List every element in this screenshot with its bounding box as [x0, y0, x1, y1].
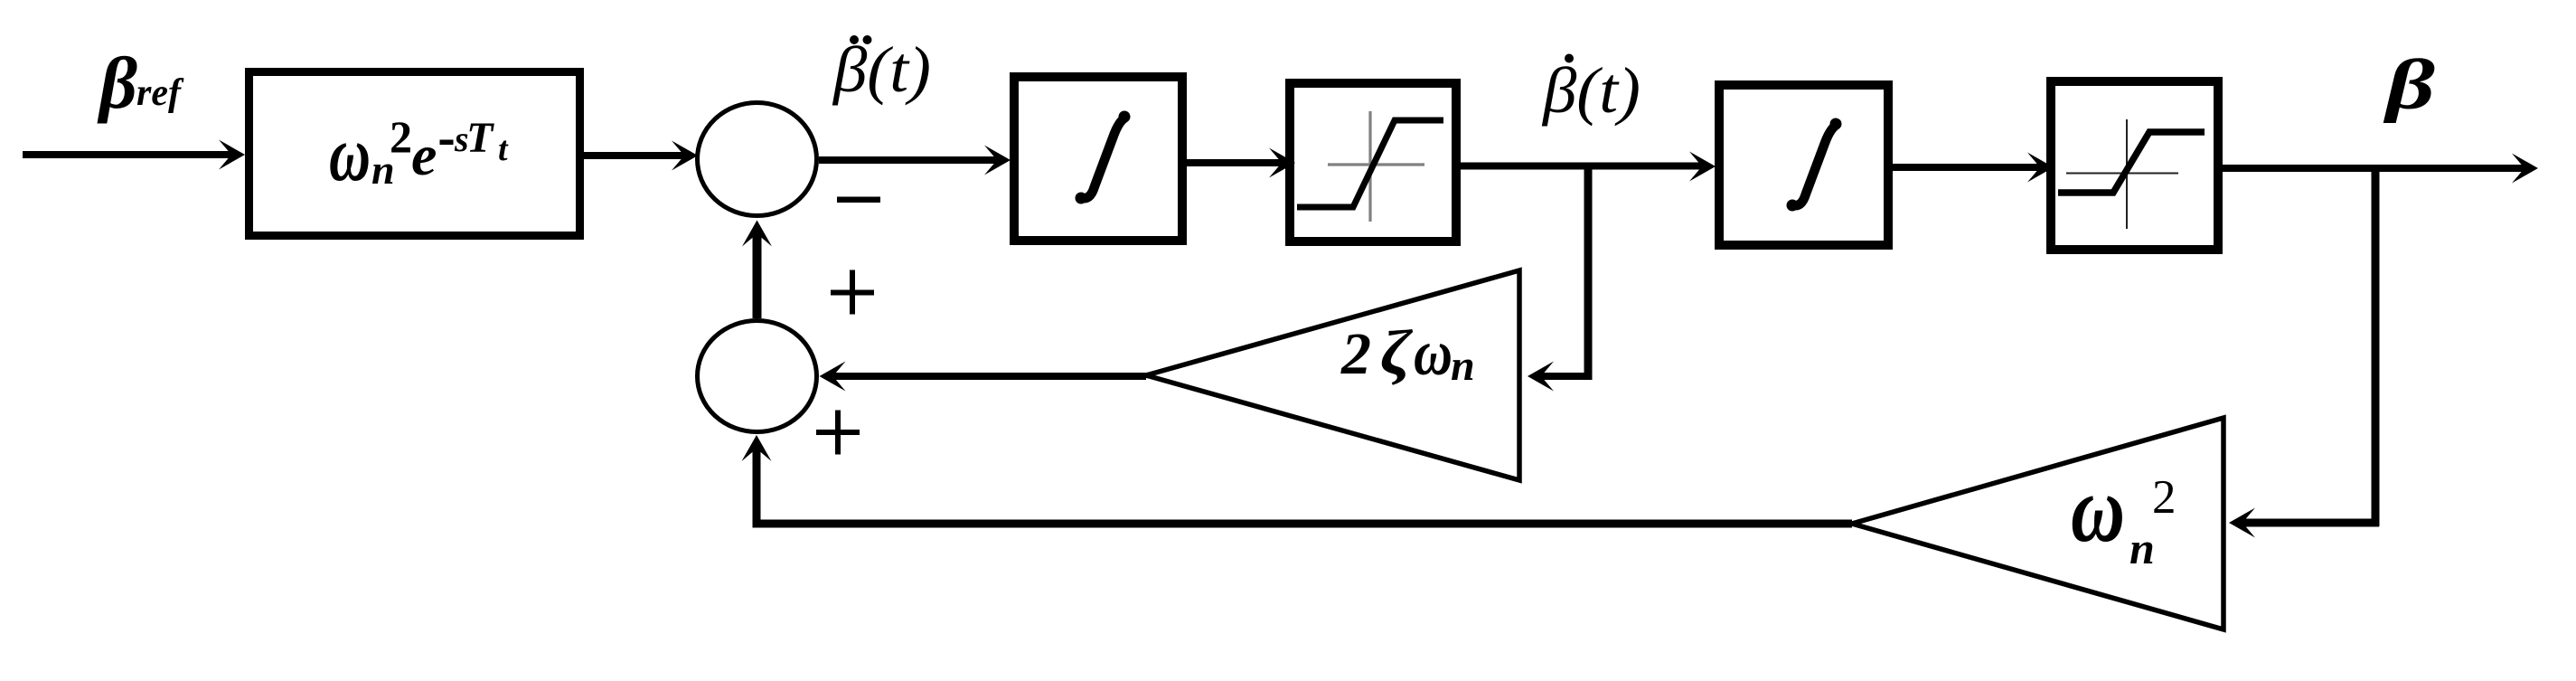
integral symbol I1	[1076, 111, 1131, 204]
wire SAT1 to integrator I2 with branch node	[1461, 152, 1716, 182]
wire S1 to integrator I1	[819, 146, 1011, 175]
value label 2 zeta omega_n	[1340, 317, 1475, 390]
node beta-d(t) label	[1541, 54, 1641, 128]
plus sign lower (S2 bottom input)	[816, 411, 860, 455]
wire input arrow into G1	[23, 140, 245, 170]
summing junction S1	[698, 103, 817, 216]
block integrator I2	[1719, 85, 1888, 245]
wire G1 to sum1	[584, 141, 698, 171]
wire T1 to sum S2	[820, 362, 1147, 392]
wire into gain T2 (omega_n^2) from right	[2229, 508, 2379, 538]
value label omega_n^2	[2071, 456, 2176, 573]
gain triangle T2 (omega_n^2)	[1852, 418, 2223, 629]
wire into gain T1 (2 zeta omega_n) from right	[1528, 362, 1592, 392]
svg-text:ω: ω	[1414, 317, 1453, 389]
svg-text:n: n	[2129, 523, 2155, 573]
svg-text:β: β	[2383, 45, 2435, 124]
svg-text:ω: ω	[2071, 456, 2125, 562]
wire I1 to saturation SAT1	[1187, 148, 1295, 178]
svg-text:2: 2	[390, 111, 412, 162]
svg-text:β: β	[97, 42, 137, 124]
value label omega_n^2 e^-sTt	[329, 109, 509, 197]
wire output beta with arrow	[2223, 154, 2538, 184]
svg-text:t: t	[498, 130, 509, 168]
wire S2 to S1 (up arrow)	[742, 221, 772, 319]
wire branch down from beta-d node	[1584, 166, 1593, 380]
node beta_ref input label	[97, 42, 184, 124]
node beta-dd(t) label	[832, 33, 931, 106]
SAT1 axis cross (gray)	[1328, 111, 1424, 222]
svg-text:β(t): β(t)	[1541, 54, 1641, 127]
svg-text:T: T	[466, 114, 494, 162]
svg-text:2: 2	[1340, 321, 1371, 387]
SAT1 saturation curve	[1297, 120, 1443, 207]
svg-text:n: n	[1451, 342, 1475, 390]
svg-text:ζ: ζ	[1380, 318, 1413, 388]
summing junction S2	[698, 321, 817, 432]
block G1 (omega_n^2 e^-sTt)	[249, 72, 580, 236]
block saturation SAT1	[1290, 83, 1456, 241]
integral symbol I2	[1787, 118, 1842, 212]
svg-text:e: e	[411, 123, 437, 187]
svg-text:ω: ω	[329, 109, 371, 197]
svg-text:β(t): β(t)	[832, 33, 931, 106]
svg-text:ref: ref	[136, 72, 184, 114]
wire I2 to saturation SAT2	[1893, 153, 2054, 183]
block integrator I1	[1014, 77, 1182, 241]
block saturation SAT2	[2051, 81, 2218, 250]
SAT2 saturation curve	[2058, 132, 2205, 193]
svg-text:2: 2	[2152, 471, 2176, 524]
wire branch down from beta node	[2372, 168, 2380, 526]
gain triangle T1 (2 zeta omega_n)	[1146, 270, 1519, 480]
minus sign at S1	[837, 197, 880, 203]
SAT2 axis cross (dark thin)	[2066, 119, 2178, 229]
plus sign upper (S1 bottom input)	[831, 270, 874, 315]
wire T2 to S2 bottom (long feedback)	[742, 435, 1853, 527]
